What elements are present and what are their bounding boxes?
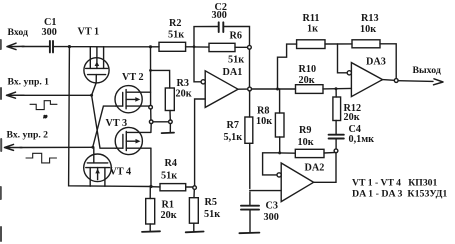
capacitor C4 bbox=[329, 121, 344, 149]
junction circle DA3 output bbox=[394, 79, 398, 83]
svg-text:Выход: Выход bbox=[413, 65, 441, 76]
wire VT1 gate diagonal bbox=[92, 83, 97, 96]
svg-text:Вход: Вход bbox=[8, 27, 29, 38]
junction circle common right bbox=[169, 120, 173, 124]
node B junction bbox=[149, 45, 152, 48]
svg-text:VT 2: VT 2 bbox=[122, 72, 144, 83]
svg-text:DA2: DA2 bbox=[305, 162, 325, 173]
resistor R9 bbox=[295, 149, 324, 157]
junction dot gates 1 bbox=[90, 94, 93, 97]
wire VT3 source down bbox=[150, 148, 152, 186]
wire R4 right bbox=[186, 186, 195, 188]
wire DA1 non-inverting input bbox=[195, 99, 206, 186]
svg-text:R13: R13 bbox=[361, 13, 379, 24]
wire R3 bottom bbox=[169, 111, 171, 120]
junction dot R11 R8 bbox=[276, 88, 279, 91]
wire DA3 output bbox=[383, 79, 395, 82]
svg-text:VT 4: VT 4 bbox=[110, 167, 132, 178]
junction dot gates 2 bbox=[91, 146, 94, 149]
resistor R1 bbox=[146, 188, 155, 232]
svg-text:51к: 51к bbox=[228, 54, 244, 65]
svg-text:R4: R4 bbox=[165, 158, 177, 169]
scan edge smudges bbox=[0, 40, 2, 241]
svg-text:20к: 20к bbox=[161, 210, 177, 221]
node C junction bbox=[193, 45, 196, 48]
svg-text:R10: R10 bbox=[299, 64, 317, 75]
svg-text:300: 300 bbox=[42, 27, 57, 38]
wire R3 top jog bbox=[151, 70, 170, 88]
junction circle DA1 output bbox=[248, 87, 252, 91]
wire VT2 source circle down bbox=[150, 109, 152, 120]
svg-text:C3: C3 bbox=[266, 201, 278, 212]
wire R6 to output junction bbox=[235, 46, 248, 48]
svg-text:20к: 20к bbox=[344, 112, 360, 123]
resistor R11 bbox=[297, 40, 325, 49]
svg-text:51к: 51к bbox=[161, 170, 177, 181]
wire R11 left lead staircase bbox=[278, 44, 297, 89]
wire node C to R6 bbox=[194, 46, 209, 48]
svg-text:DA1: DA1 bbox=[223, 67, 243, 78]
op-amp DA3 bbox=[347, 63, 382, 97]
wire DA1 output bbox=[238, 88, 248, 90]
svg-text:51к: 51к bbox=[168, 29, 184, 40]
junction circle common left bbox=[149, 120, 153, 124]
wire node B to R2 bbox=[151, 46, 160, 48]
svg-text:20к: 20к bbox=[299, 75, 315, 86]
resistor R12 bbox=[333, 89, 341, 121]
transistor VT4 bbox=[84, 147, 112, 186]
wire R11 to R13 junction bbox=[325, 43, 352, 45]
resistor R3 bbox=[165, 88, 174, 111]
wire C2 branch right bbox=[224, 27, 250, 46]
svg-text:R9: R9 bbox=[299, 125, 311, 136]
capacitor C3 bbox=[241, 192, 259, 232]
svg-text:VT 3: VT 3 bbox=[106, 118, 128, 129]
wire VT1 source to node B bbox=[104, 46, 151, 48]
chassis bar under R1 bbox=[142, 230, 160, 233]
wire diagonal to VT3 gate bbox=[92, 95, 116, 148]
wire control 2 to gates bbox=[20, 146, 93, 148]
junction circle R5 top bbox=[193, 186, 197, 190]
svg-text:10к: 10к bbox=[360, 24, 376, 35]
output terminal Выход bbox=[398, 79, 443, 85]
control input 2 terminal bbox=[5, 144, 23, 150]
wire circle down to VT3 bbox=[150, 124, 152, 133]
wire R9 right to node bbox=[324, 151, 336, 154]
resistor R7 bbox=[245, 91, 253, 189]
junction dot bottom left wire bbox=[149, 185, 152, 188]
resistor R4 bbox=[160, 184, 186, 191]
svg-text:0,1мк: 0,1мк bbox=[349, 134, 375, 145]
op-amp DA1 bbox=[201, 71, 238, 108]
capacitor C1 bbox=[50, 41, 53, 52]
op-amp DA2 bbox=[277, 163, 314, 202]
wire node A to VT1 drain bbox=[69, 46, 103, 48]
svg-text:VT 1 - VT 4 КП301: VT 1 - VT 4 КП301 bbox=[352, 177, 438, 188]
svg-text:R5: R5 bbox=[205, 197, 217, 208]
svg-text:DA 1 - DA 3 К153УД1: DA 1 - DA 3 К153УД1 bbox=[352, 188, 447, 199]
wire R8 node to R9 bbox=[280, 152, 296, 154]
transistor VT1 bbox=[84, 47, 109, 83]
svg-text:10к: 10к bbox=[298, 137, 314, 148]
input terminal Вход bbox=[7, 43, 24, 49]
svg-text:R2: R2 bbox=[169, 18, 181, 29]
resistor R10 bbox=[296, 85, 324, 94]
transistor VT3 bbox=[115, 127, 151, 154]
chassis stub R3 bbox=[169, 124, 171, 133]
junction circle R6 right bbox=[248, 45, 252, 49]
svg-text:1к: 1к bbox=[307, 23, 318, 34]
svg-text:VT 1: VT 1 bbox=[78, 27, 100, 38]
junction circle VT2 source bbox=[149, 105, 153, 109]
wire input to C1 bbox=[22, 46, 49, 48]
pulse symbol input 1 bbox=[30, 101, 57, 110]
svg-text:R3: R3 bbox=[177, 78, 189, 89]
svg-text:”: ” bbox=[44, 113, 48, 123]
wire node C down to DA1 inverting input bbox=[194, 47, 201, 82]
svg-text:5,1к: 5,1к bbox=[224, 132, 243, 143]
wire C2 branch left bbox=[194, 27, 218, 47]
svg-text:R7: R7 bbox=[227, 120, 239, 131]
wire control 1 to gates junction bbox=[22, 94, 92, 96]
svg-text:C1: C1 bbox=[44, 17, 56, 28]
resistor R5 bbox=[189, 189, 198, 231]
quote mark artifact bbox=[44, 113, 48, 123]
junction dot R3 top bbox=[149, 69, 152, 72]
svg-text:10к: 10к bbox=[256, 116, 272, 127]
wire DA2 inverting loop bbox=[263, 153, 280, 175]
wire R2 to node C bbox=[186, 46, 194, 48]
wire R13 right down to output bbox=[380, 44, 396, 79]
pulse symbol input 2 bbox=[26, 153, 57, 163]
control input 1 terminal bbox=[7, 92, 25, 98]
resistor R6 bbox=[209, 43, 235, 51]
svg-text:R8: R8 bbox=[257, 106, 269, 117]
resistor R13 bbox=[352, 40, 380, 48]
wire R13 junction down to DA3 inverting bbox=[338, 44, 348, 73]
transistor VT2 bbox=[115, 86, 150, 113]
chassis bar under C3 bbox=[239, 232, 259, 235]
svg-text:300: 300 bbox=[264, 212, 279, 223]
svg-text:Вх. упр. 1: Вх. упр. 1 bbox=[8, 77, 50, 88]
svg-text:DA3: DA3 bbox=[366, 57, 386, 68]
wire DA1 output to right bbox=[252, 88, 296, 90]
wire bottom to R4 bbox=[151, 186, 160, 188]
junction dot R12 top bbox=[335, 87, 338, 90]
wire VT2 gate diagonal bbox=[93, 106, 116, 146]
chassis bar under R5 bbox=[186, 231, 204, 234]
junction circle C4 bottom node bbox=[334, 149, 338, 153]
svg-text:R6: R6 bbox=[230, 31, 242, 42]
vertical line node A down bbox=[69, 47, 151, 187]
chassis bar common bbox=[162, 132, 174, 135]
svg-text:51к: 51к bbox=[204, 209, 220, 220]
node A junction bbox=[68, 45, 71, 48]
wire R10 right bbox=[323, 87, 351, 90]
capacitor C2 bbox=[219, 22, 224, 32]
wire DA2 noninv bbox=[250, 190, 281, 192]
wire node down to DA2 output bbox=[314, 153, 336, 183]
svg-text:Вх. упр. 2: Вх. упр. 2 bbox=[7, 130, 49, 141]
svg-text:20к: 20к bbox=[176, 89, 192, 100]
wire C1 to node A bbox=[54, 46, 70, 48]
vertical node B down through VT2 VT3 bbox=[150, 47, 152, 105]
wire common circles horizontal bbox=[153, 121, 169, 123]
resistor R2 bbox=[159, 42, 186, 51]
resistor R8 bbox=[275, 89, 284, 153]
junction dot R8 bottom bbox=[278, 151, 281, 154]
wire DA1 feedback vertical down to output node bbox=[249, 49, 251, 87]
svg-text:300: 300 bbox=[212, 10, 227, 21]
